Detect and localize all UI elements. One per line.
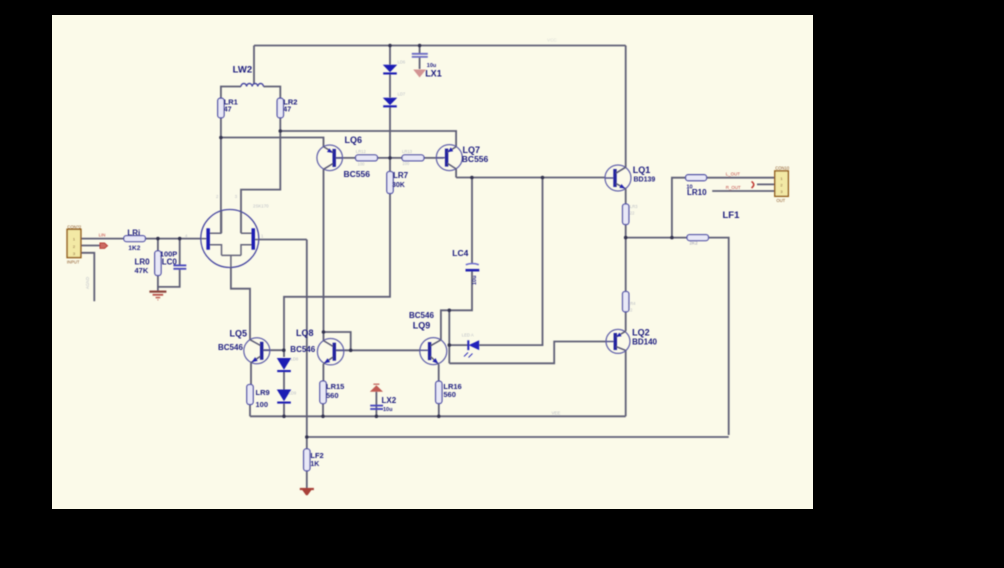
svg-text:LR3: LR3 bbox=[630, 204, 638, 209]
labels connector maroon bbox=[67, 166, 790, 265]
junction at (449.3,345.1) bbox=[448, 343, 452, 347]
svg-text:LR7: LR7 bbox=[393, 171, 409, 180]
LED A bbox=[464, 340, 479, 357]
labels faint tiny bbox=[85, 38, 698, 416]
wire between bias diodes bbox=[283, 372, 285, 390]
wire LQ5 collector from JFET source tap bbox=[231, 268, 250, 340]
wire LR9 bottom corner bbox=[249, 405, 251, 417]
svg-text:LR10: LR10 bbox=[687, 188, 707, 197]
svg-text:LC4: LC4 bbox=[452, 248, 468, 258]
resistor 2K2 feedback bbox=[687, 235, 709, 241]
svg-text:LR4: LR4 bbox=[628, 301, 636, 306]
junction at (306.8,437) bbox=[305, 435, 309, 439]
wire rail down to LQ1 collector bbox=[625, 46, 627, 168]
resistor LR4 above LQ2 bbox=[623, 292, 629, 312]
svg-text:LQ5: LQ5 bbox=[230, 329, 248, 339]
resistor LR1 bbox=[218, 98, 224, 118]
svg-text:LX2: LX2 bbox=[382, 396, 397, 405]
wire LF2 stem top bbox=[306, 437, 308, 449]
wire VEE rail bbox=[250, 415, 626, 417]
svg-text:560: 560 bbox=[443, 390, 456, 399]
svg-text:1K2: 1K2 bbox=[128, 245, 140, 252]
wire LR0 bottom to ground bbox=[157, 276, 159, 292]
wire LC4 bottom to LQ9 collector bbox=[441, 272, 472, 340]
svg-text:LR12: LR12 bbox=[356, 149, 367, 154]
wire LR10 to output connector bbox=[707, 177, 775, 179]
svg-text:47: 47 bbox=[224, 107, 232, 114]
junction at (323,416.3) bbox=[321, 415, 325, 419]
wire output node down to second resistor bbox=[625, 238, 627, 292]
black mask bottom bbox=[0, 509, 1004, 568]
wire LC0 bottom joins LR0 bbox=[158, 270, 180, 287]
svg-text:1K: 1K bbox=[310, 461, 319, 468]
svg-text:R_OUT: R_OUT bbox=[726, 185, 741, 190]
capacitor LX2 bbox=[370, 406, 383, 409]
diode LD9 bias bbox=[277, 390, 291, 404]
wire output connector stub pin2 bbox=[757, 183, 775, 185]
transistor LQ2 BD140 PNP bbox=[606, 329, 630, 353]
wire LQ6 collector down to LQ8 collector bbox=[323, 169, 325, 340]
capacitor LC0 bbox=[173, 265, 186, 268]
resistor LF2 bbox=[304, 449, 310, 471]
wire output node up to LR10 bbox=[672, 178, 686, 238]
wire LX1 stem top bbox=[419, 46, 421, 54]
wire LW2 left lead bbox=[221, 87, 241, 99]
port arrow LIN red bbox=[100, 243, 108, 248]
wire diode column from rail bbox=[389, 46, 391, 65]
wire feedback rail bbox=[307, 436, 729, 438]
wire LQ5 base to bias diodes bbox=[263, 349, 283, 351]
inductor LW2 bbox=[241, 84, 263, 87]
svg-text:22: 22 bbox=[630, 211, 635, 216]
jfet LU1 dual circle bbox=[201, 210, 259, 268]
resistor LR0 input shunt bbox=[155, 251, 161, 276]
labels red nets bbox=[99, 171, 741, 237]
svg-text:CON?2: CON?2 bbox=[67, 225, 82, 230]
junction at (390,157.9) bbox=[388, 156, 392, 160]
svg-text:LD8: LD8 bbox=[291, 357, 299, 362]
svg-text:LQ8: LQ8 bbox=[296, 328, 314, 338]
svg-text:LQ1: LQ1 bbox=[633, 165, 651, 175]
transistor LQ6 BC556 PNP bbox=[317, 145, 343, 171]
svg-text:100: 100 bbox=[256, 400, 269, 409]
svg-text:LRi: LRi bbox=[127, 228, 140, 237]
wire output node horizontal bbox=[626, 237, 687, 239]
svg-text:LR2: LR2 bbox=[283, 98, 297, 107]
wire LR0 column bbox=[157, 239, 159, 251]
ground LF2 red bbox=[300, 489, 314, 495]
svg-text:LD9: LD9 bbox=[289, 391, 297, 396]
svg-text:LR1: LR1 bbox=[224, 98, 238, 107]
wire LQ1 emitter to resistor bbox=[625, 189, 627, 204]
svg-text:LF1: LF1 bbox=[723, 210, 741, 221]
transistor LQ7 BC556 PNP bbox=[436, 145, 462, 171]
black mask left bbox=[0, 0, 52, 568]
svg-text:LW2: LW2 bbox=[233, 65, 253, 76]
wire LQ8 emitter to LR15 bbox=[322, 364, 324, 381]
wire node B to LQ6 emitter bbox=[221, 138, 324, 147]
wire LRi to JFET left gate bbox=[145, 238, 201, 240]
wire node X to LQ2 base bbox=[449, 342, 606, 364]
svg-text:LQ9: LQ9 bbox=[413, 321, 431, 331]
wire LQ8 collector-base loop bbox=[324, 332, 351, 350]
diode LD8 bias bbox=[277, 358, 291, 372]
svg-text:10u: 10u bbox=[472, 276, 478, 285]
svg-text:47K: 47K bbox=[135, 266, 149, 275]
wire node X to LED cathode bbox=[449, 344, 468, 346]
svg-text:L_OUT: L_OUT bbox=[726, 171, 740, 176]
resistor LR9 bbox=[247, 385, 253, 405]
junction at (280.3,131) bbox=[279, 129, 283, 133]
svg-text:OUT: OUT bbox=[776, 198, 785, 203]
resistor LR15 bbox=[320, 381, 326, 404]
labels bold refs bbox=[127, 63, 740, 468]
wire LR1 bottom to JFET left drain bbox=[220, 118, 222, 233]
wire LR2 bottom to JFET right drain bbox=[241, 118, 280, 233]
svg-text:LR9: LR9 bbox=[256, 388, 270, 397]
svg-text:BC546: BC546 bbox=[218, 343, 243, 352]
junction at (220.9,137.5) bbox=[219, 136, 223, 140]
resistor LR10 output series bbox=[686, 175, 707, 181]
wire emitter resistor to output node bbox=[625, 225, 627, 238]
wire 2K2 to feedback drop bbox=[709, 238, 729, 435]
wire LR15 bottom bbox=[322, 404, 324, 417]
wire node X vertical bbox=[448, 310, 450, 363]
svg-text:2K2: 2K2 bbox=[690, 241, 699, 246]
wire second resistor to LQ2 emitter bbox=[625, 312, 627, 331]
svg-text:BC556: BC556 bbox=[344, 169, 371, 179]
svg-text:LD6: LD6 bbox=[398, 60, 406, 65]
svg-text:LR15: LR15 bbox=[326, 382, 344, 391]
wire base chain LQ6 to LQ7 bbox=[336, 157, 444, 159]
svg-text:LD7: LD7 bbox=[398, 92, 406, 97]
wire LR7 bottom to bias diode column bbox=[284, 194, 390, 358]
svg-text:INPUT: INPUT bbox=[67, 260, 80, 265]
junction at (542.5,177.5) bbox=[541, 176, 545, 180]
wire LC0 column bbox=[179, 239, 181, 265]
transistor LQ1 BD139 NPN bbox=[605, 165, 631, 191]
svg-text:BC546: BC546 bbox=[409, 311, 434, 320]
svg-text:LR13: LR13 bbox=[402, 149, 413, 154]
resistor LR13 chain B bbox=[402, 155, 424, 161]
resistor LR7 bbox=[387, 172, 393, 194]
wire top supply rail bbox=[254, 45, 626, 47]
wire between diodes LD6 LD7 bbox=[389, 74, 391, 98]
junction at (419.6,45.5) bbox=[418, 44, 422, 48]
svg-text:LF2: LF2 bbox=[310, 451, 323, 460]
svg-text:100: 100 bbox=[358, 162, 366, 167]
junction at (625.7,237.6) bbox=[624, 236, 628, 240]
svg-text:47: 47 bbox=[283, 107, 291, 114]
junction at (449.3,310.3) bbox=[448, 309, 452, 313]
power symbol LX2 red arrow bbox=[370, 384, 383, 392]
resistor LRi input series bbox=[124, 236, 146, 242]
wire LQ5 emitter to LR9 bbox=[250, 363, 252, 385]
junction at (284,416.3) bbox=[282, 415, 286, 419]
wire below LD7 to base chain bbox=[389, 107, 391, 172]
wire LR16 bottom bbox=[438, 404, 440, 417]
svg-text:100: 100 bbox=[402, 161, 410, 166]
resistor LR16 bbox=[436, 381, 442, 403]
wire below bias diodes to VEE rail bbox=[283, 404, 285, 417]
ground input red bbox=[149, 292, 166, 300]
wire feedback column down bbox=[306, 240, 308, 438]
wire LQ7 collector down bbox=[455, 169, 457, 178]
svg-text:560: 560 bbox=[326, 391, 339, 400]
wire LQ9 emitter to LR16 bbox=[438, 364, 440, 381]
svg-text:VEE: VEE bbox=[552, 411, 561, 416]
svg-text:AGND: AGND bbox=[85, 277, 90, 289]
wire output connector stub pin3 bbox=[712, 190, 775, 192]
wire input pin3 down stub bbox=[81, 253, 94, 301]
svg-text:LIN: LIN bbox=[99, 232, 106, 237]
diode LD7 bbox=[383, 98, 397, 108]
wire LW2 right lead bbox=[264, 87, 281, 99]
capacitor LX1 bbox=[412, 54, 428, 57]
capacitor LC4 bbox=[466, 264, 480, 272]
junction at (283.8,350.2) bbox=[282, 348, 286, 352]
wire LF2 stem to ground bbox=[306, 471, 308, 489]
connector CON2 input bbox=[67, 229, 81, 257]
wire LX2 stem bbox=[375, 392, 377, 417]
svg-text:10u: 10u bbox=[383, 407, 392, 413]
junction at (157.9,238.6) bbox=[156, 237, 160, 241]
black mask right bbox=[813, 0, 1004, 568]
svg-text:LQ2: LQ2 bbox=[632, 328, 650, 338]
junction at (350.7,350.3) bbox=[349, 349, 353, 353]
junction at (471.9,177.5) bbox=[470, 176, 474, 180]
wire input pin1 to LRi bbox=[81, 238, 124, 240]
wire LC4 top feed bbox=[471, 178, 473, 264]
svg-text:BD139: BD139 bbox=[634, 177, 656, 184]
resistor LR2 bbox=[277, 98, 283, 118]
svg-text:LC0: LC0 bbox=[162, 257, 178, 266]
wire LX1 stem bottom to ground bbox=[419, 58, 421, 69]
wire JFET right gate to feedback column bbox=[259, 239, 307, 241]
svg-text:2SK170: 2SK170 bbox=[253, 204, 269, 209]
svg-text:BC556: BC556 bbox=[462, 154, 489, 164]
wire LED anode up to VAS node bbox=[479, 178, 542, 346]
svg-text:LQ6: LQ6 bbox=[345, 135, 363, 145]
wire rail down to LW2 center tap bbox=[253, 46, 255, 85]
svg-text:VCC: VCC bbox=[547, 38, 557, 43]
wire node A to LQ7 emitter bbox=[280, 131, 456, 147]
junction at (179.7,238.6) bbox=[178, 237, 182, 241]
transistor LQ9 BC546 NPN bbox=[420, 338, 447, 365]
wire LQ8 base to LQ9 base bbox=[336, 349, 420, 351]
diode LD6 bbox=[383, 65, 397, 75]
transistor LQ8 BC546 NPN diode-connected bbox=[317, 339, 343, 365]
transistor LQ5 BC546 NPN bbox=[244, 338, 270, 364]
svg-text:22: 22 bbox=[628, 308, 633, 313]
resistor LR12 chain A bbox=[356, 155, 378, 161]
svg-text:BC546: BC546 bbox=[290, 345, 315, 354]
svg-text:CON10: CON10 bbox=[775, 166, 790, 171]
wire LQ2 collector down to VEE rail bbox=[625, 350, 627, 416]
wire input pin2 stub bbox=[81, 245, 100, 247]
connector CON10 output bbox=[775, 171, 789, 196]
jfet internals bbox=[201, 211, 259, 268]
svg-text:BD140: BD140 bbox=[632, 338, 657, 347]
junction at (671.9,237.6) bbox=[670, 236, 674, 240]
ground LX1 red bbox=[413, 70, 426, 78]
junction at (376.4,416.3) bbox=[375, 415, 379, 419]
junction at (323.5,332) bbox=[322, 330, 326, 334]
svg-text:LED A: LED A bbox=[462, 332, 474, 337]
junction at (390,45.5) bbox=[388, 44, 392, 48]
junction at (438.8,416.3) bbox=[437, 415, 441, 419]
port arrow red at output bbox=[752, 182, 754, 189]
svg-text:LX1: LX1 bbox=[425, 69, 442, 79]
svg-text:30K: 30K bbox=[392, 182, 405, 189]
resistor LR3 emitter of LQ1 bbox=[623, 204, 629, 225]
wire VAS output node to LQ1 base bbox=[456, 177, 605, 179]
black mask top bbox=[0, 0, 1004, 15]
